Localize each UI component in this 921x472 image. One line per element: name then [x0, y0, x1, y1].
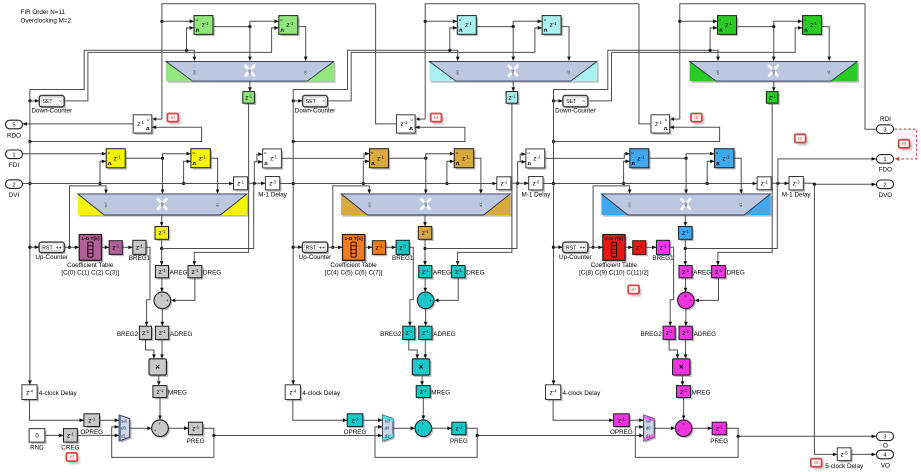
svg-text:PREG: PREG — [450, 438, 468, 445]
wire AREG to adder colC — [684, 278, 688, 292]
register 4-clock delay colB — [285, 385, 302, 402]
register AREG colC — [679, 266, 694, 280]
svg-text:BREG1: BREG1 — [392, 255, 414, 262]
wire BREG2 to mult colA — [146, 339, 156, 358]
wire ADREG to mult colC — [684, 339, 688, 358]
wire sel line colC — [554, 49, 720, 90]
svg-text:u: u — [411, 118, 413, 122]
label RDO — [7, 133, 21, 140]
wire FDI to reg — [23, 152, 107, 156]
register M-1 delay colB — [529, 177, 545, 192]
wire to AREG colC — [684, 239, 688, 265]
wire OPREG to mux colA — [100, 418, 120, 422]
svg-text:d0: d0 — [160, 202, 165, 207]
wire mux2 sel colB — [331, 186, 371, 249]
register (top delay 2) colB — [542, 16, 563, 36]
svg-text:PREG: PREG — [710, 438, 728, 445]
wire to DVO port — [804, 183, 876, 187]
svg-text:DVI: DVI — [9, 192, 20, 199]
wire to mux2 d0 colB — [424, 158, 428, 194]
wire to mux1 d0 colA — [248, 27, 252, 61]
wire to RDO port — [23, 122, 134, 126]
register AREG colA — [155, 266, 170, 280]
svg-text:MREG: MREG — [168, 390, 187, 397]
wire feedback loop colB — [375, 425, 477, 457]
wire enable reg1 colB — [450, 26, 458, 50]
svg-text:1-D T[k]: 1-D T[k] — [605, 236, 624, 242]
label OPREG colB — [344, 429, 367, 436]
register (R chain) colC — [651, 115, 671, 135]
register (after data mux) colA — [155, 227, 170, 242]
wire MREG to adder colC — [682, 398, 686, 420]
svg-text:O: O — [883, 443, 888, 450]
svg-text::: : — [317, 100, 318, 104]
svg-text:++: ++ — [56, 245, 62, 251]
signal spec marker CREG — [66, 453, 79, 464]
wire F chain into colC — [545, 152, 630, 159]
wire mux2 sel colA — [68, 186, 108, 249]
svg-text:2: 2 — [883, 183, 886, 189]
wire F reg1 to reg2 colA — [125, 152, 191, 160]
register MREG colB — [416, 386, 432, 400]
wire to O port — [726, 428, 876, 438]
wire riser2 to F reg colA — [257, 152, 263, 162]
register (table pipeline) colC — [633, 241, 648, 257]
mux (top commutator) colB — [429, 61, 598, 82]
svg-text:Down-Counter: Down-Counter — [31, 107, 72, 114]
register 4-clock delay colC — [546, 385, 563, 402]
port RDI (3) — [877, 125, 894, 134]
svg-text:1: 1 — [12, 153, 15, 159]
svg-text:sel: sel — [715, 70, 720, 75]
svg-text:d0: d0 — [646, 426, 651, 431]
svg-text:d1: d1 — [738, 202, 743, 207]
label DREG colC — [727, 270, 745, 277]
svg-text:sel: sel — [627, 202, 632, 207]
svg-text:u: u — [193, 151, 195, 155]
wire to mux2 d1 colB — [474, 158, 483, 194]
wire enable reg1 colA — [187, 26, 195, 50]
svg-text:RDI: RDI — [880, 116, 891, 123]
mux (output select) colB — [382, 415, 394, 443]
pre-adder colC — [678, 292, 696, 310]
label AREG colC — [693, 270, 711, 277]
wire loop to white reg colC — [552, 125, 720, 143]
svg-text:DREG: DREG — [466, 270, 484, 277]
label BREG1 colB — [392, 255, 414, 262]
register PREG colC — [712, 422, 728, 436]
svg-text:CREG: CREG — [61, 445, 79, 452]
svg-text:3: 3 — [883, 127, 886, 133]
svg-text:M-1 Delay: M-1 Delay — [522, 191, 552, 198]
svg-text:d0: d0 — [683, 202, 688, 207]
label AREG colB — [433, 270, 451, 277]
wire sel line colB — [293, 49, 459, 90]
wire to BREG1 colB — [386, 246, 397, 250]
wire counter to table colB — [328, 246, 343, 250]
svg-text::: : — [317, 246, 318, 250]
mux (top commutator) colA — [166, 61, 335, 82]
wire reg2-out to mux1 d1 colC — [822, 27, 832, 61]
wire delay to OPREG colC — [553, 400, 614, 423]
mux (data commutator) colC — [601, 194, 772, 217]
register M-1 delay colC — [789, 177, 805, 192]
input port FDI (1) — [6, 150, 23, 159]
input port RDO (5) — [6, 120, 23, 129]
svg-text:Coefficient Table: Coefficient Table — [330, 262, 377, 269]
register BREG1 colA — [133, 240, 148, 256]
svg-text:Down-Counter: Down-Counter — [555, 107, 596, 114]
wire colC to reg1 — [680, 19, 718, 23]
register ADREG colA — [155, 326, 170, 341]
svg-text:5-clock Delay: 5-clock Delay — [825, 463, 864, 470]
wire D reg to M-1 delay colB — [511, 182, 529, 186]
register OPREG colB — [347, 414, 364, 429]
register (top delay 2) colA — [279, 16, 300, 36]
mux (data commutator) colA — [78, 194, 249, 217]
svg-text:u: u — [280, 18, 282, 22]
svg-text:BREG1: BREG1 — [129, 255, 151, 262]
svg-text:RDO: RDO — [7, 133, 21, 140]
svg-text:ADREG: ADREG — [433, 331, 455, 338]
svg-text:AREG: AREG — [170, 270, 188, 277]
wire riser to F reg colB — [518, 160, 526, 183]
register (F delay 2) colB — [454, 149, 475, 170]
signal spec marker top colC — [691, 114, 704, 125]
wire OPREG to mux colC — [629, 418, 643, 422]
svg-text:1-D T[k]: 1-D T[k] — [344, 236, 363, 242]
register (after top mux) colC — [766, 92, 779, 105]
svg-text:AREG: AREG — [693, 270, 711, 277]
register (top delay 1) colB — [457, 16, 478, 36]
wire mux to adder colB — [393, 426, 415, 430]
mux1 port labels colA — [191, 69, 307, 75]
virtual link RDI to FDO — [895, 129, 917, 161]
wire riser2 to F reg colB — [520, 152, 526, 162]
wire B feed colC — [685, 183, 777, 248]
label FDO — [879, 167, 892, 174]
svg-text:sel: sel — [455, 70, 460, 75]
wire reg2-out to mux1 d1 colA — [298, 27, 308, 61]
output port O (3) — [877, 432, 894, 441]
label 4-clock Delay colB — [302, 390, 341, 397]
svg-text:d0: d0 — [510, 69, 515, 74]
label MREG colB — [431, 390, 450, 397]
wire top R-bus colB — [424, 4, 639, 119]
output adder colB — [415, 420, 433, 438]
wire DREG to adder colB — [434, 278, 458, 302]
wire mult to MREG colC — [681, 375, 685, 386]
register (after data mux) colC — [679, 227, 694, 242]
wire mux1 out colA — [248, 81, 252, 92]
wire to mux2 d0 colA — [161, 158, 165, 194]
svg-text:M-1 Delay: M-1 Delay — [782, 191, 812, 198]
label MREG colC — [692, 390, 711, 397]
register (table pipeline) colB — [372, 241, 387, 257]
register PREG colB — [452, 422, 468, 436]
wire table out colC — [625, 246, 633, 250]
svg-text:[C(4) C(5) C(6) C(7)]: [C(4) C(5) C(6) C(7)] — [325, 269, 383, 276]
mux1 port labels colB — [455, 69, 571, 75]
register BREG2 colB — [403, 326, 417, 341]
register 4-clock delay colA — [22, 385, 39, 402]
wire to mux1 d0 colC — [772, 27, 776, 61]
svg-text:RST: RST — [42, 245, 53, 251]
svg-text:u: u — [544, 18, 546, 22]
svg-text:×: × — [679, 363, 684, 372]
up-counter colA — [35, 242, 68, 261]
wire enable reg2 colC — [588, 26, 803, 101]
wire to mux2 d0 colC — [684, 158, 688, 194]
register DREG colC — [712, 266, 728, 280]
svg-text:1: 1 — [883, 157, 886, 163]
coefficient table ROM colB — [325, 235, 383, 277]
wire enable F reg1 colB — [362, 160, 370, 186]
wire table out colA — [102, 246, 110, 250]
wire enable F reg1 colC — [622, 160, 630, 186]
register ADREG colC — [679, 326, 694, 341]
mux2 port labels colA — [103, 202, 220, 208]
wire to mux1 d0 colB — [511, 27, 515, 61]
wire MREG to adder colB — [421, 398, 425, 420]
wire to up-counter colC — [554, 245, 563, 249]
label ADREG colA — [170, 331, 192, 338]
register (top delay 2) colC — [803, 16, 824, 36]
wire F reg1 to reg2 colC — [649, 152, 715, 160]
wire feedback loop colA — [112, 425, 214, 457]
svg-text:RST: RST — [306, 245, 317, 251]
svg-text:d0: d0 — [771, 69, 776, 74]
label DVO — [879, 192, 893, 199]
svg-text:u: u — [528, 151, 530, 155]
mux (output select) colC — [644, 415, 656, 443]
label ADREG colC — [694, 331, 716, 338]
label M-1 Delay colB — [522, 191, 552, 198]
wire loop to white reg colA — [28, 125, 201, 143]
wire CREG to mux d1 — [77, 434, 119, 438]
wire F chain into colB — [281, 152, 369, 159]
wire ADREG to mult colA — [160, 339, 164, 358]
mux1 port labels colC — [715, 69, 831, 75]
svg-text:BREG2: BREG2 — [117, 331, 139, 338]
register BREG1 colC — [656, 240, 671, 256]
svg-text:~: ~ — [582, 99, 585, 105]
wire to mux2 d1 colA — [210, 158, 219, 194]
input port DVI (2) — [6, 180, 23, 189]
wire mux2 out colA — [160, 215, 164, 227]
svg-text:DREG: DREG — [727, 270, 745, 277]
svg-text:sel: sel — [366, 202, 371, 207]
svg-text:~: ~ — [322, 99, 325, 105]
wire A feed to DREG colC — [716, 103, 772, 265]
svg-text:MREG: MREG — [692, 390, 711, 397]
svg-text:d0: d0 — [247, 69, 252, 74]
wire adder to ADREG colC — [684, 309, 688, 327]
wire table out colB — [365, 246, 373, 250]
label BREG2 colB — [380, 331, 402, 338]
wire into white reg colB — [415, 117, 425, 121]
wire to VO port — [851, 453, 876, 457]
wire to mux2 d1 colC — [734, 158, 743, 194]
wire BREG1 to BREG2 colA — [145, 247, 150, 326]
register (after data mux) colB — [418, 227, 433, 242]
wire mult to MREG colB — [420, 375, 424, 386]
wire cascade colA — [203, 428, 383, 437]
label AREG colA — [170, 270, 188, 277]
svg-text:BREG2: BREG2 — [640, 331, 662, 338]
svg-text:u: u — [371, 151, 373, 155]
wire top R-bus colC — [678, 4, 876, 130]
svg-text:OPREG: OPREG — [344, 429, 367, 436]
pre-adder colA — [154, 292, 172, 310]
svg-text:u: u — [716, 151, 718, 155]
register (F delay 1) colC — [630, 149, 651, 170]
wire reg2-out to mux1 d1 colB — [561, 27, 571, 61]
wire ADREG to mult colB — [423, 339, 427, 358]
svg-text::: : — [577, 246, 578, 250]
svg-text:u: u — [108, 151, 110, 155]
register OPREG colA — [84, 414, 101, 429]
wire BREG2 to mult colC — [669, 339, 679, 358]
svg-text:RST: RST — [566, 245, 577, 251]
wire enable reg2 colB — [328, 26, 543, 101]
svg-text:u: u — [631, 151, 633, 155]
output port FDO (1) — [877, 155, 894, 164]
register PREG colA — [189, 422, 205, 436]
svg-text:OPREG: OPREG — [610, 429, 633, 436]
svg-text:BREG1: BREG1 — [652, 255, 674, 262]
wire control bus colB — [292, 90, 295, 385]
wire A feed to DREG colA — [193, 103, 249, 265]
wire adder to PREG colB — [432, 426, 452, 430]
register (top delay 1) colA — [194, 16, 215, 36]
label DVI — [9, 192, 20, 199]
svg-text:4-clock Delay: 4-clock Delay — [563, 390, 602, 397]
label DREG colB — [466, 270, 484, 277]
svg-text:u: u — [264, 151, 266, 155]
label BREG1 colC — [652, 255, 674, 262]
register (table pipeline) colA — [109, 241, 124, 257]
register ADREG colB — [419, 326, 434, 341]
label CREG — [61, 445, 79, 452]
svg-text:FIR Order N=11: FIR Order N=11 — [21, 9, 66, 16]
label OPREG colC — [610, 429, 633, 436]
svg-text:Up-Counter: Up-Counter — [559, 254, 592, 261]
wire to down-counter colA — [28, 99, 39, 103]
svg-text:Coefficient Table: Coefficient Table — [67, 262, 114, 269]
wire mux to adder colC — [654, 426, 675, 430]
register (F delay 1) colB — [370, 149, 391, 170]
wire enable reg1 colC — [710, 26, 717, 50]
label FDI — [9, 162, 19, 169]
svg-text::: : — [577, 100, 578, 104]
wire to FDO port — [778, 157, 876, 183]
signal spec marker VO — [811, 459, 824, 470]
wire mux1 out colB — [511, 81, 515, 92]
svg-text:4-clock Delay: 4-clock Delay — [302, 390, 341, 397]
svg-text:OPREG: OPREG — [80, 429, 103, 436]
wire enable F reg2 colA — [182, 160, 191, 186]
mux (data commutator) colB — [341, 194, 512, 217]
signal spec marker colC table — [628, 285, 641, 296]
wire D chain into colB — [280, 182, 497, 186]
wire D chain into colC — [543, 182, 757, 186]
signal spec marker top colA — [167, 114, 180, 125]
svg-text:BREG2: BREG2 — [380, 331, 402, 338]
wire DREG to adder colC — [695, 278, 719, 302]
multiplier colA — [149, 359, 168, 377]
wire mux1 out colC — [772, 81, 776, 92]
svg-text:Coefficient Table: Coefficient Table — [591, 262, 638, 269]
svg-text:SET: SET — [43, 99, 54, 105]
pre-adder colB — [417, 292, 435, 310]
svg-text:d0: d0 — [385, 426, 390, 431]
wire feedback loop colC — [635, 425, 738, 457]
register (D delay) colA — [234, 177, 250, 192]
svg-text:AREG: AREG — [433, 270, 451, 277]
wire control bus colC — [552, 90, 555, 385]
svg-text:×: × — [155, 363, 160, 372]
wire DREG to adder colA — [171, 278, 195, 302]
wire mux2 sel colC — [592, 186, 632, 249]
wire white reg out colC — [639, 4, 651, 124]
register (after top mux) colB — [506, 92, 519, 105]
label PREG colA — [187, 438, 205, 445]
svg-text:u: u — [456, 151, 458, 155]
wire BREG2 to mult colB — [409, 339, 419, 358]
svg-text:d1: d1 — [646, 433, 651, 438]
svg-text:DVO: DVO — [879, 192, 893, 199]
svg-text:Up-Counter: Up-Counter — [35, 254, 68, 261]
coefficient table ROM colC — [579, 235, 649, 277]
wire B feed colB — [425, 183, 517, 248]
svg-text:4-clock Delay: 4-clock Delay — [39, 390, 78, 397]
svg-text:d1: d1 — [121, 433, 126, 438]
label OPREG colA — [80, 429, 103, 436]
register (F delay 2) colC — [715, 149, 736, 170]
register DREG colB — [451, 266, 467, 280]
label 5-clock Delay — [825, 463, 864, 470]
svg-text:d1: d1 — [385, 433, 390, 438]
label BREG1 colA — [129, 255, 151, 262]
wire reg1-out to reg2 colB — [476, 19, 542, 28]
signal spec marker FDO area — [899, 140, 912, 151]
wire control bus colA — [28, 90, 31, 385]
register (after top mux) colA — [243, 92, 256, 105]
svg-text:d0: d0 — [423, 202, 428, 207]
svg-text:sel: sel — [646, 418, 651, 423]
register (F boundary) colB — [526, 149, 547, 170]
wire MREG to adder colA — [158, 398, 162, 420]
constant RND — [29, 429, 46, 444]
output port VO (4) — [877, 450, 894, 459]
register OPREG colC — [614, 414, 631, 429]
output port DVO (2) — [877, 180, 894, 189]
svg-text:u: u — [665, 118, 667, 122]
register (F boundary) colA — [263, 149, 284, 170]
label ADREG colB — [433, 331, 455, 338]
label PREG colC — [710, 438, 728, 445]
register (F delay 1) colA — [106, 149, 127, 170]
wire D reg to M-1 delay colA — [248, 182, 266, 186]
svg-text:Overclocking M=2: Overclocking M=2 — [21, 17, 72, 24]
mux2 port labels colB — [366, 202, 483, 208]
wire reg1-out to reg2 colC — [737, 19, 803, 28]
svg-text:u: u — [719, 18, 721, 22]
label DREG colA — [203, 270, 221, 277]
wire into white reg colC — [670, 117, 680, 121]
register AREG colB — [419, 266, 434, 280]
